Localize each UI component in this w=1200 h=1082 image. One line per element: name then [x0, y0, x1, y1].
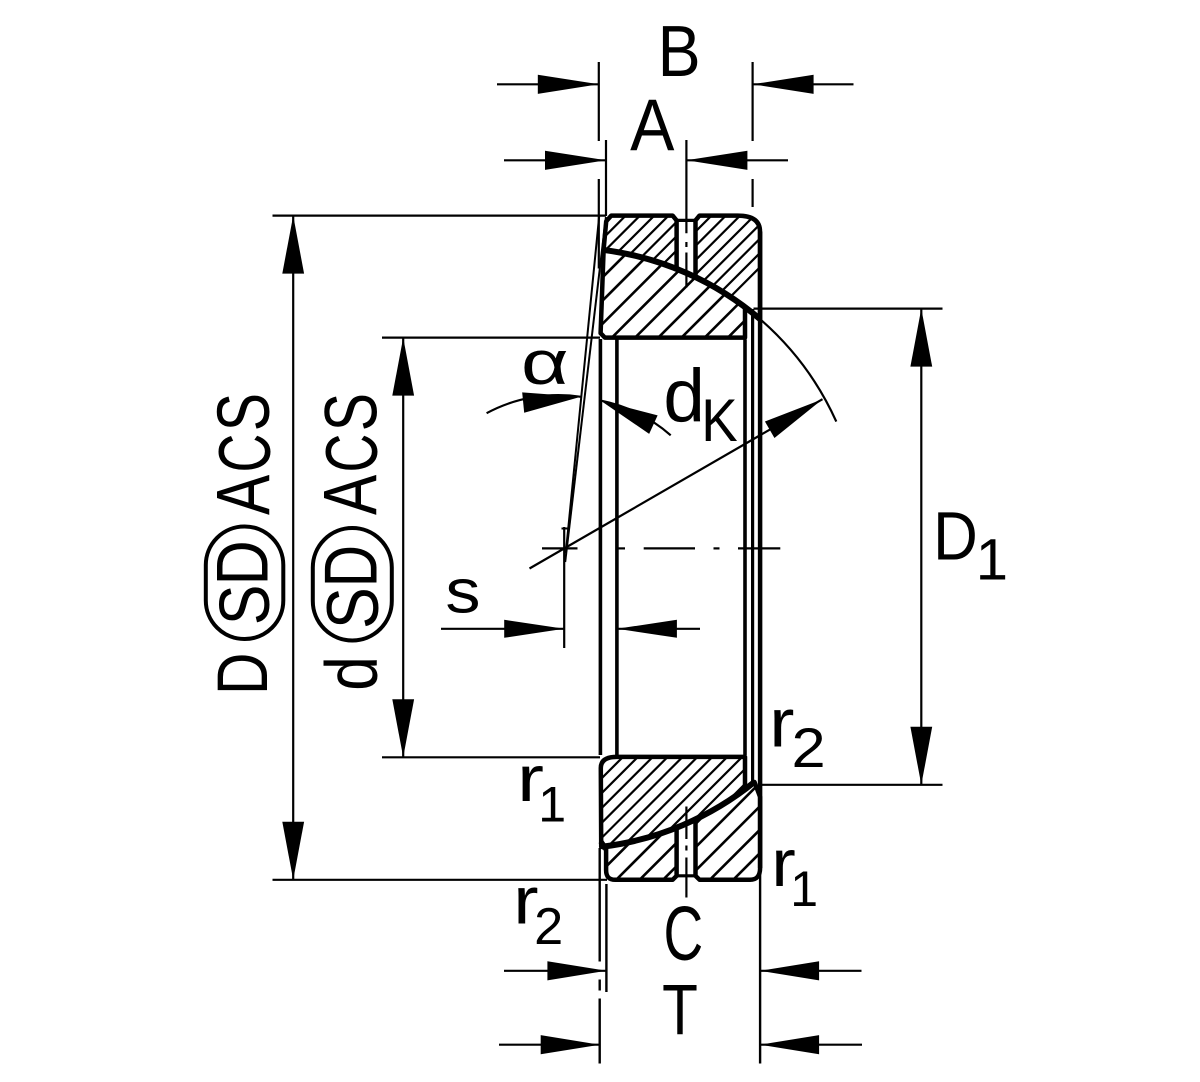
outer ring upper section outline: [604, 216, 760, 319]
ext line B right: [751, 62, 753, 141]
label C: [664, 891, 704, 977]
outer ring lower section outline: [602, 782, 760, 880]
svg-text:1: 1: [976, 528, 1008, 593]
ext line D1 top: [754, 308, 943, 310]
svg-text:s: s: [445, 557, 480, 626]
svg-text:2: 2: [792, 717, 826, 779]
ext line D1 bottom: [760, 784, 943, 786]
outer ring upper lube-hole mouth line: [675, 219, 697, 222]
label r1 left: [517, 742, 544, 816]
lower-left sphere/face junction blob: [601, 842, 607, 850]
svg-text:B: B: [658, 11, 701, 92]
dimension line A: [504, 159, 606, 161]
svg-text:α: α: [521, 329, 569, 398]
label ACS (D column): [201, 475, 286, 515]
outer ring lower lube-hole mouth line: [675, 874, 697, 877]
SD symbol capsule (d column): [313, 528, 392, 641]
dimension line B: [497, 83, 599, 85]
contact line 1: [566, 216, 599, 553]
hatch inner ring lower section: [365, 120, 1200, 1000]
hatch inner ring upper section: [0, 120, 969, 1000]
bore chamfer silhouette line left: [615, 340, 619, 756]
label dK: [663, 354, 705, 438]
ext line A right + lube hole axis upper: [685, 140, 687, 233]
sphere center vertical tick: [563, 527, 565, 648]
svg-text:D: D: [933, 497, 978, 574]
SD symbol letters (d column): [312, 587, 394, 629]
svg-text:S: S: [312, 587, 394, 629]
dK dimension line (sphere diameter): [530, 399, 823, 568]
contact line 2: [565, 217, 606, 562]
svg-text:K: K: [701, 388, 737, 455]
svg-text:C: C: [664, 891, 704, 977]
svg-text:d: d: [312, 656, 393, 691]
s dimension: [441, 628, 564, 630]
ext line D bottom: [273, 879, 608, 881]
label A: [630, 85, 675, 167]
svg-text:1: 1: [538, 776, 566, 832]
dimension line D (outside diameter): [292, 216, 294, 880]
label r1 right bottom: [771, 825, 796, 900]
svg-text:D: D: [310, 545, 394, 587]
sphere circle thin extension arc (for dK): [760, 319, 836, 422]
label ACS (d column): [308, 475, 393, 515]
ext line d top: [382, 337, 600, 339]
label D1: [933, 497, 978, 574]
dimension line T (total width): [499, 1044, 600, 1046]
ext line A left: [605, 140, 607, 216]
contact lines convergence tick: [562, 528, 569, 530]
horizontal centerline (dash-dot): [542, 547, 578, 549]
svg-text:S: S: [203, 393, 286, 431]
label d rotated (bore dia): [312, 656, 393, 691]
svg-text:D: D: [202, 540, 283, 585]
svg-text:T: T: [662, 970, 698, 1050]
sliding sphere surface lower (thick arc): [602, 782, 755, 847]
label r2 left bottom: [513, 864, 538, 939]
svg-text:A: A: [201, 475, 286, 515]
svg-text:S: S: [310, 393, 393, 431]
lube hole axis lower: [685, 807, 687, 840]
svg-text:d: d: [663, 354, 705, 438]
inner ring lower section outline: [601, 757, 745, 847]
svg-text:2: 2: [534, 898, 563, 956]
inner ring upper section outline: [601, 250, 745, 337]
sphere edge silhouette line right: [751, 309, 754, 784]
svg-text:A: A: [308, 475, 393, 515]
bore silhouette line left: [599, 339, 603, 755]
ext line d bottom: [382, 756, 600, 758]
svg-text:A: A: [630, 85, 675, 167]
alpha angle arc: [487, 395, 581, 413]
label D rotated (outside dia): [203, 653, 283, 695]
dimension line d (bore diameter): [402, 338, 404, 758]
SD symbol capsule (D column): [206, 527, 283, 640]
ext line B left: [598, 62, 600, 141]
svg-text:D: D: [203, 653, 283, 695]
bore silhouette line right: [743, 340, 747, 756]
hatch outer ring upper section: [0, 120, 907, 1000]
ext line D top: [273, 215, 607, 217]
ext line T left: [599, 848, 601, 962]
svg-text:1: 1: [790, 861, 818, 917]
dimension line C (outer ring width): [504, 970, 606, 972]
label s: [445, 557, 480, 626]
SD symbol letters (D column): [206, 585, 286, 625]
ext line C/T right: [759, 869, 761, 1064]
svg-text:S: S: [206, 585, 286, 625]
hatch outer ring lower section: [449, 120, 1200, 1000]
label alpha: [521, 329, 569, 398]
label B: [658, 11, 701, 92]
label r2 right top: [769, 686, 794, 762]
outer ring right face line: [758, 232, 763, 869]
label T: [662, 970, 698, 1050]
dimension line D1: [920, 309, 922, 785]
sliding sphere surface upper (thick arc): [604, 250, 760, 319]
svg-text:C: C: [311, 434, 393, 473]
svg-text:C: C: [204, 434, 286, 473]
ext line C left: [605, 884, 607, 992]
